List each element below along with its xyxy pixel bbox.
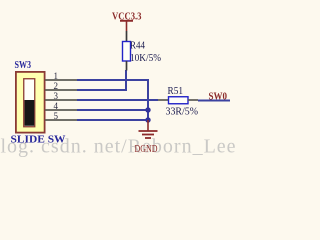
wire pin3 to R51 <box>77 99 158 101</box>
svg-text:5: 5 <box>54 111 59 121</box>
slide switch SW3 <box>11 60 67 146</box>
watermark <box>1 136 237 158</box>
svg-text:2: 2 <box>54 81 59 91</box>
svg-text:SW3: SW3 <box>15 60 32 71</box>
pin 3 <box>45 91 77 101</box>
svg-text:R44: R44 <box>130 41 145 52</box>
svg-text:33R/5%: 33R/5% <box>166 107 199 118</box>
ground DGND <box>135 120 158 155</box>
wire pin2 to R44 <box>77 70 126 90</box>
wire pin4 to ground rail <box>77 109 148 111</box>
svg-text:3: 3 <box>54 91 59 101</box>
resistor R44 <box>123 31 162 71</box>
svg-text:DGND: DGND <box>135 144 158 155</box>
wire R51 to SW0 <box>198 100 230 102</box>
wire pin1 to ground rail <box>77 80 148 120</box>
pin 5 <box>45 111 77 121</box>
pin 4 <box>45 101 77 111</box>
pin 1 <box>45 71 77 81</box>
svg-text:R51: R51 <box>168 86 184 97</box>
svg-text:10K/5%: 10K/5% <box>130 53 161 64</box>
svg-text:SW0: SW0 <box>209 92 228 103</box>
net label SW0 <box>209 92 228 103</box>
resistor R51 <box>158 86 198 118</box>
wire pin5 to ground rail <box>77 119 148 121</box>
svg-text:1: 1 <box>54 71 59 81</box>
power VCC3.3 <box>112 12 142 32</box>
junction pin4/ground rail <box>145 107 150 112</box>
svg-text:SLIDE SW: SLIDE SW <box>11 135 67 146</box>
pin 2 <box>45 81 77 91</box>
svg-text:4: 4 <box>54 101 59 111</box>
junction pin5/ground rail <box>145 117 150 122</box>
